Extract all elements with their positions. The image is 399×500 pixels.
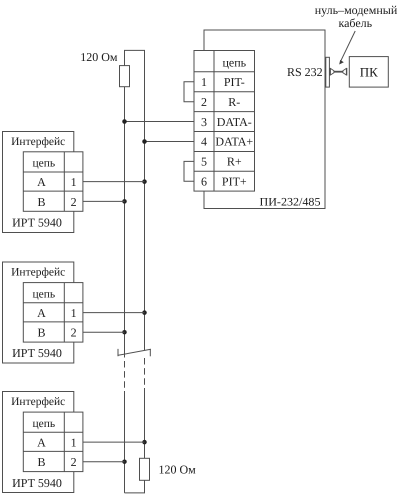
resistor R2 120 Ом (bottom terminator) [140,458,150,480]
device box ИРТ 5940 #2 [3,262,74,363]
svg-text:DATA+: DATA+ [215,135,253,149]
node: pin3/left bus junction [122,119,127,124]
svg-text:А: А [37,175,46,189]
computer box ПК [349,57,388,88]
svg-text:А: А [37,306,46,320]
line-break symbol on buses [118,349,151,356]
svg-text:120 Ом: 120 Ом [159,463,197,477]
wire: IRT1 pin2 B to left bus [83,200,125,202]
node: IRT2 A / right bus [142,310,147,315]
svg-text:2: 2 [71,455,77,469]
wire: left bus B (solid upper segment) [124,87,126,358]
svg-text:6: 6 [201,175,207,189]
svg-text:ИРТ 5940: ИРТ 5940 [12,476,62,490]
null-modem cable symbol (two DB connectors) [330,68,346,76]
svg-text:ПИ-232/485: ПИ-232/485 [260,197,321,209]
jumper pins 1-2 (PIT- to R-) [184,82,194,102]
wire: IRT2 pin2 B to left bus [83,331,125,333]
terminal table ИРТ #2 [23,283,83,343]
annotation arrow to cable [341,31,356,61]
junction dots [122,119,147,464]
svg-text:1: 1 [71,435,77,449]
ИРТ 5940 device group 2 [3,262,145,363]
svg-text:Интерфейс: Интерфейс [11,136,65,148]
svg-text:1: 1 [71,306,77,320]
wire: IRT1 pin1 A to right bus [83,181,145,183]
svg-text:1: 1 [71,175,77,189]
svg-text:В: В [37,195,45,209]
svg-text:PIT+: PIT+ [222,175,247,189]
svg-text:цепь: цепь [222,56,246,70]
device box ИРТ 5940 #3 [3,392,74,493]
svg-text:R-: R- [228,95,240,109]
svg-text:кабель: кабель [338,16,372,30]
svg-text:нуль–модемный: нуль–модемный [315,3,398,17]
svg-text:цепь: цепь [32,288,55,300]
svg-text:В: В [37,455,45,469]
svg-text:В: В [37,326,45,340]
node: pin4/right bus junction [142,139,147,144]
jumper pins 5-6 (R+ to PIT+) [184,161,194,181]
svg-text:2: 2 [71,195,77,209]
svg-text:4: 4 [201,135,207,149]
svg-text:Интерфейс: Интерфейс [11,267,65,279]
wire: bottom jog between buses [125,480,145,493]
terminal table ИРТ #3 [23,412,83,472]
device box ИРТ 5940 #1 [3,132,74,233]
resistor R1 120 Ом (top terminator) [120,66,130,87]
ИРТ 5940 device group 3 [3,392,145,493]
wire: left bus B (solid lower segment) [124,391,126,493]
wire: IRT2 pin1 A to right bus [83,312,145,314]
wire: right bus A (solid lower segment) [144,388,146,458]
ИРТ 5940 device group 1 [3,132,145,233]
svg-text:цепь: цепь [32,418,55,430]
svg-text:DATA-: DATA- [217,115,252,129]
svg-text:1: 1 [201,75,207,89]
svg-text:PIT-: PIT- [224,75,245,89]
svg-text:RS 232: RS 232 [287,65,323,79]
connector RS-232 port on U1 [326,57,330,87]
node: IRT2 B / left bus [122,330,127,335]
node: IRT3 A / right bus [142,440,147,445]
pin labels of converter table [201,56,253,189]
wire: right bus A (dashed continuation) [144,358,146,388]
node: IRT1 A / right bus [142,179,147,184]
wire: left bus B (dashed continuation) [124,361,126,391]
wire: pin 3 DATA- to left bus [125,121,195,123]
svg-text:А: А [37,435,46,449]
node: IRT1 B / left bus [122,199,127,204]
converter box U1 ПИ-232/485 [204,30,325,209]
label нуль-модемный кабель [315,3,398,30]
svg-text:2: 2 [71,326,77,340]
svg-text:Интерфейс: Интерфейс [11,396,65,408]
svg-text:120 Ом: 120 Ом [80,50,118,64]
svg-text:3: 3 [201,115,207,129]
terminal table ИРТ #1 [23,152,83,212]
svg-text:ПК: ПК [360,65,378,80]
svg-text:R+: R+ [227,155,242,169]
wire: IRT3 pin2 B to left bus [83,461,125,463]
svg-text:5: 5 [201,155,207,169]
svg-text:2: 2 [201,95,207,109]
connector table of ПИ-232/485 [194,51,255,192]
node: IRT3 B / left bus [122,459,127,464]
svg-text:ИРТ 5940: ИРТ 5940 [12,346,62,360]
wire: right bus A (solid upper segment) [144,50,146,350]
wire: IRT3 pin1 A to right bus [83,441,145,443]
wire: top jog between buses A and B [125,50,145,65]
svg-text:ИРТ 5940: ИРТ 5940 [12,216,62,230]
wire: pin 4 DATA+ to right bus [145,141,195,143]
arrowhead of annotation arrow [339,60,344,65]
svg-text:цепь: цепь [32,158,55,170]
